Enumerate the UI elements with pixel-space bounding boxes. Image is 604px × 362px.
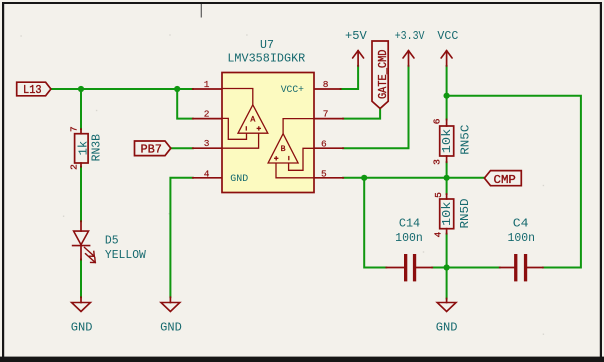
svg-text:1k: 1k [77,141,91,156]
svg-text:C4: C4 [513,217,529,231]
svg-text:2: 2 [69,164,80,170]
svg-text:GND: GND [160,321,182,335]
svg-text:VCC+: VCC+ [281,84,304,96]
svg-text:3: 3 [204,138,210,149]
svg-text:10k: 10k [440,202,454,227]
svg-text:B: B [281,145,286,154]
svg-text:PB7: PB7 [140,143,162,157]
svg-text:4: 4 [433,232,444,238]
svg-text:10k: 10k [440,129,454,154]
svg-text:RN3B: RN3B [90,134,104,161]
svg-text:5: 5 [433,192,444,198]
svg-text:VCC: VCC [437,29,458,43]
svg-text:7: 7 [69,126,80,132]
svg-text:5: 5 [321,169,327,180]
svg-text:RN5C: RN5C [458,125,472,155]
svg-text:2: 2 [204,108,210,119]
svg-text:L13: L13 [23,83,42,97]
svg-text:A: A [250,116,255,125]
svg-text:GND: GND [436,321,458,335]
svg-text:YELLOW: YELLOW [105,248,147,262]
svg-text:LMV358IDGKR: LMV358IDGKR [227,52,305,66]
svg-text:3: 3 [432,159,443,165]
svg-text:4: 4 [204,169,210,180]
svg-text:GATE_CMD: GATE_CMD [376,50,390,100]
svg-text:6: 6 [432,118,443,124]
svg-text:CMP: CMP [494,173,516,187]
svg-text:U7: U7 [260,38,274,52]
svg-text:1: 1 [204,79,210,90]
svg-text:GND: GND [230,173,248,185]
svg-text:D5: D5 [105,234,119,248]
svg-text:RN5D: RN5D [458,198,472,228]
svg-text:6: 6 [321,139,327,150]
svg-text:C14: C14 [399,217,420,231]
svg-text:+5V: +5V [345,29,367,43]
svg-text:+3.3V: +3.3V [395,29,425,43]
svg-text:100n: 100n [508,231,536,245]
svg-text:100n: 100n [395,231,423,245]
svg-text:7: 7 [323,108,329,119]
svg-text:8: 8 [323,79,329,90]
svg-text:GND: GND [71,321,93,335]
